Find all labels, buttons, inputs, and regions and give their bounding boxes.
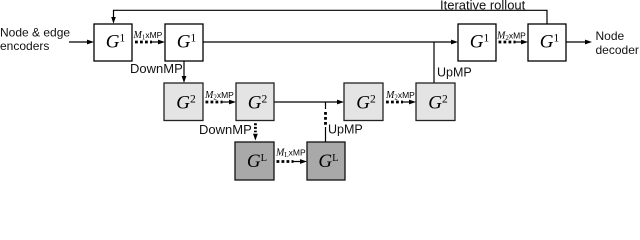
svg-text:UpMP: UpMP — [437, 66, 472, 80]
svg-text:Node & edge: Node & edge — [0, 26, 70, 40]
svg-text:M2xMP: M2xMP — [204, 90, 234, 102]
svg-text:decoder: decoder — [596, 43, 639, 57]
svg-text:Iterative rollout: Iterative rollout — [440, 0, 526, 13]
svg-text:Node: Node — [596, 29, 625, 43]
svg-text:UpMP: UpMP — [328, 123, 363, 137]
svg-text:DownMP: DownMP — [130, 61, 183, 76]
svg-text:M2xMP: M2xMP — [385, 90, 415, 102]
svg-text:DownMP: DownMP — [199, 122, 252, 137]
svg-text:MLxMP: MLxMP — [275, 148, 306, 160]
svg-text:M1xMP: M1xMP — [133, 30, 163, 42]
svg-text:encoders: encoders — [0, 39, 49, 53]
svg-text:M2xMP: M2xMP — [496, 31, 526, 43]
